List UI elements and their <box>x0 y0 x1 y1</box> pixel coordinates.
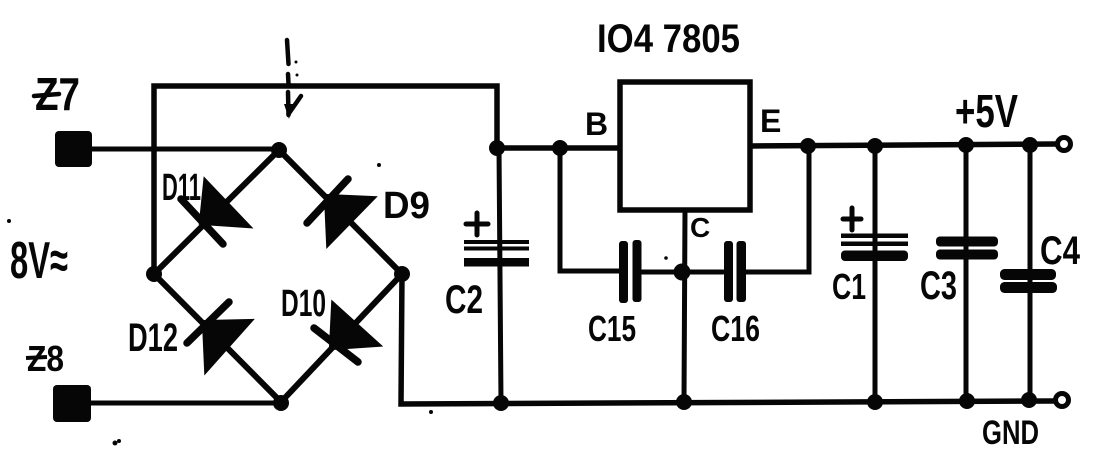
terminal +5V output circle <box>1058 138 1071 151</box>
svg-text:D12: D12 <box>128 316 178 360</box>
diode D10 <box>314 306 376 362</box>
svg-text:8V≈: 8V≈ <box>10 232 68 290</box>
wire Z7 input <box>91 147 279 152</box>
wire B rail <box>497 145 620 151</box>
diode D12 <box>187 302 248 368</box>
wire C2 lead <box>499 148 501 403</box>
diode D9 <box>307 179 371 242</box>
wire right corner to ground rail <box>401 274 1055 404</box>
scan specks <box>7 163 668 446</box>
wire bypass middle <box>641 270 723 275</box>
capacitor C3 plates <box>936 237 998 260</box>
wire C pin lead <box>684 210 685 402</box>
svg-text:Z8: Z8 <box>27 338 64 379</box>
svg-text:Z7: Z7 <box>35 68 80 120</box>
wire bypass right rise <box>745 146 809 272</box>
wire C1 lead <box>873 146 878 402</box>
capacitor C1 plates <box>841 234 908 262</box>
wire bridge edge bottom-right <box>281 274 402 402</box>
terminal Z7 <box>55 131 92 167</box>
capacitor C2 plates <box>464 240 529 267</box>
svg-text:+5V: +5V <box>955 85 1018 137</box>
terminal GND output circle <box>1056 394 1069 407</box>
regulator U (7805) box <box>620 82 750 210</box>
svg-text:E: E <box>760 103 781 139</box>
wire bridge edge bottom-left <box>154 274 281 402</box>
wire bypass left drop <box>560 148 619 271</box>
capacitor C4 plates <box>1000 269 1057 293</box>
svg-text:D9: D9 <box>383 185 430 227</box>
svg-text:D11: D11 <box>162 167 201 209</box>
wire C4 lead <box>1028 145 1033 401</box>
svg-text:IO4 7805: IO4 7805 <box>597 17 740 61</box>
svg-text:D10: D10 <box>281 283 326 325</box>
svg-text:C2: C2 <box>445 278 483 322</box>
wire bridge edge top-left <box>154 150 279 274</box>
diode D11 <box>181 183 246 244</box>
svg-text:C4: C4 <box>1040 229 1081 273</box>
svg-text:B: B <box>585 106 608 142</box>
svg-text:C15: C15 <box>588 308 636 349</box>
wire bridge edge top-right <box>279 150 402 274</box>
svg-text:C1: C1 <box>832 266 866 307</box>
capacitor C1 plus sign <box>843 208 861 230</box>
svg-text:C3: C3 <box>920 264 957 308</box>
label Z7 strike <box>34 94 59 96</box>
arrow annotation (dashed, pointing down at top wire) <box>284 40 301 119</box>
wire E rail <box>750 144 1056 146</box>
capacitor C15 plates <box>619 240 642 303</box>
terminal Z8 <box>53 385 91 422</box>
capacitor C16 plates <box>724 241 746 302</box>
wire C3 lead <box>964 145 969 401</box>
svg-text:C: C <box>690 212 710 243</box>
svg-text:C16: C16 <box>711 308 760 349</box>
wire bridge + loop (left corner up over top to rail) <box>154 86 497 272</box>
capacitor C2 plus sign <box>466 213 488 235</box>
svg-text:GND: GND <box>982 414 1039 452</box>
wire Z8 input <box>91 401 283 406</box>
label Z8 strike <box>26 357 47 358</box>
